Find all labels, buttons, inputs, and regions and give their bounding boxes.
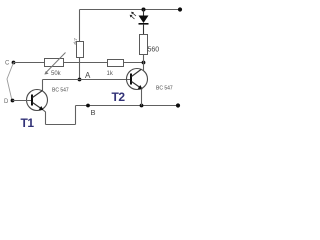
potentiometer R2 50k body	[45, 59, 64, 67]
svg-text:4k7: 4k7	[73, 38, 78, 46]
LED D1 cathode bar	[139, 23, 149, 25]
terminal C dot	[12, 61, 16, 65]
switch lever C to D	[7, 63, 14, 101]
wire T2 collector vertical	[143, 63, 145, 71]
terminal D dot	[11, 99, 15, 103]
transistor T1 collector diagonal	[33, 91, 43, 98]
terminal dot top-right supply	[178, 7, 182, 11]
transistor T2 emitter diagonal with arrow	[132, 82, 142, 89]
svg-text:D: D	[4, 99, 9, 105]
svg-text:50k: 50k	[51, 71, 62, 77]
wire pot to resistor R3	[64, 62, 108, 64]
svg-text:T2: T2	[112, 90, 126, 104]
transistor T2 base bar	[130, 74, 132, 85]
svg-text:BC 547: BC 547	[156, 86, 173, 92]
wire left vertical from rail to R1	[79, 10, 81, 42]
resistor R3 1k	[108, 60, 124, 67]
transistor T1 circle	[27, 90, 48, 111]
node junction dot at T2 collector	[142, 61, 146, 65]
svg-text:560: 560	[148, 47, 160, 54]
wire T2 emitter vertical	[141, 89, 143, 106]
svg-text:T1: T1	[21, 116, 35, 130]
potentiometer arrow	[46, 53, 66, 73]
transistor T1 emitter diagonal with arrow	[33, 103, 43, 110]
svg-text:1k: 1k	[107, 71, 114, 77]
svg-text:A: A	[85, 71, 91, 80]
terminal dot bottom-right	[176, 103, 180, 107]
wire T1 collector vertical	[42, 80, 44, 91]
LED D1 triangle	[139, 16, 149, 24]
wire R1 bottom to node A	[79, 58, 81, 80]
wire C to potentiometer	[14, 62, 45, 64]
wire base line T1 collector to T2 base	[43, 79, 132, 81]
node B dot	[86, 104, 90, 108]
transistor T1 base bar	[31, 95, 33, 106]
svg-text:BC 547: BC 547	[52, 88, 69, 94]
node junction dot LED anode on rail	[142, 8, 146, 12]
wire top supply rail	[80, 9, 182, 11]
wire bottom rail	[76, 105, 180, 107]
wire staircase up to bottom rail	[75, 106, 77, 125]
resistor R4 560	[140, 35, 148, 55]
wire R3 to T2 collector junction	[124, 62, 144, 64]
wire T1 emitter down	[43, 110, 46, 125]
svg-text:B: B	[91, 108, 96, 117]
node A dot	[78, 78, 82, 82]
wire D to T1 base	[13, 100, 32, 102]
wire T1 emitter horizontal	[46, 124, 76, 126]
resistor R1 4k7	[77, 42, 84, 58]
wire R4 to junction	[143, 55, 145, 63]
svg-text:C: C	[5, 61, 10, 67]
LED light arrow 2	[131, 16, 135, 20]
node junction dot T2 emitter on rail	[140, 104, 144, 108]
wire LED anode lead	[143, 10, 145, 16]
LED light arrow 1	[132, 13, 136, 17]
transistor T2 collector diagonal	[132, 70, 142, 77]
transistor T2 circle	[127, 69, 148, 90]
wire LED cathode to R4	[143, 24, 145, 35]
